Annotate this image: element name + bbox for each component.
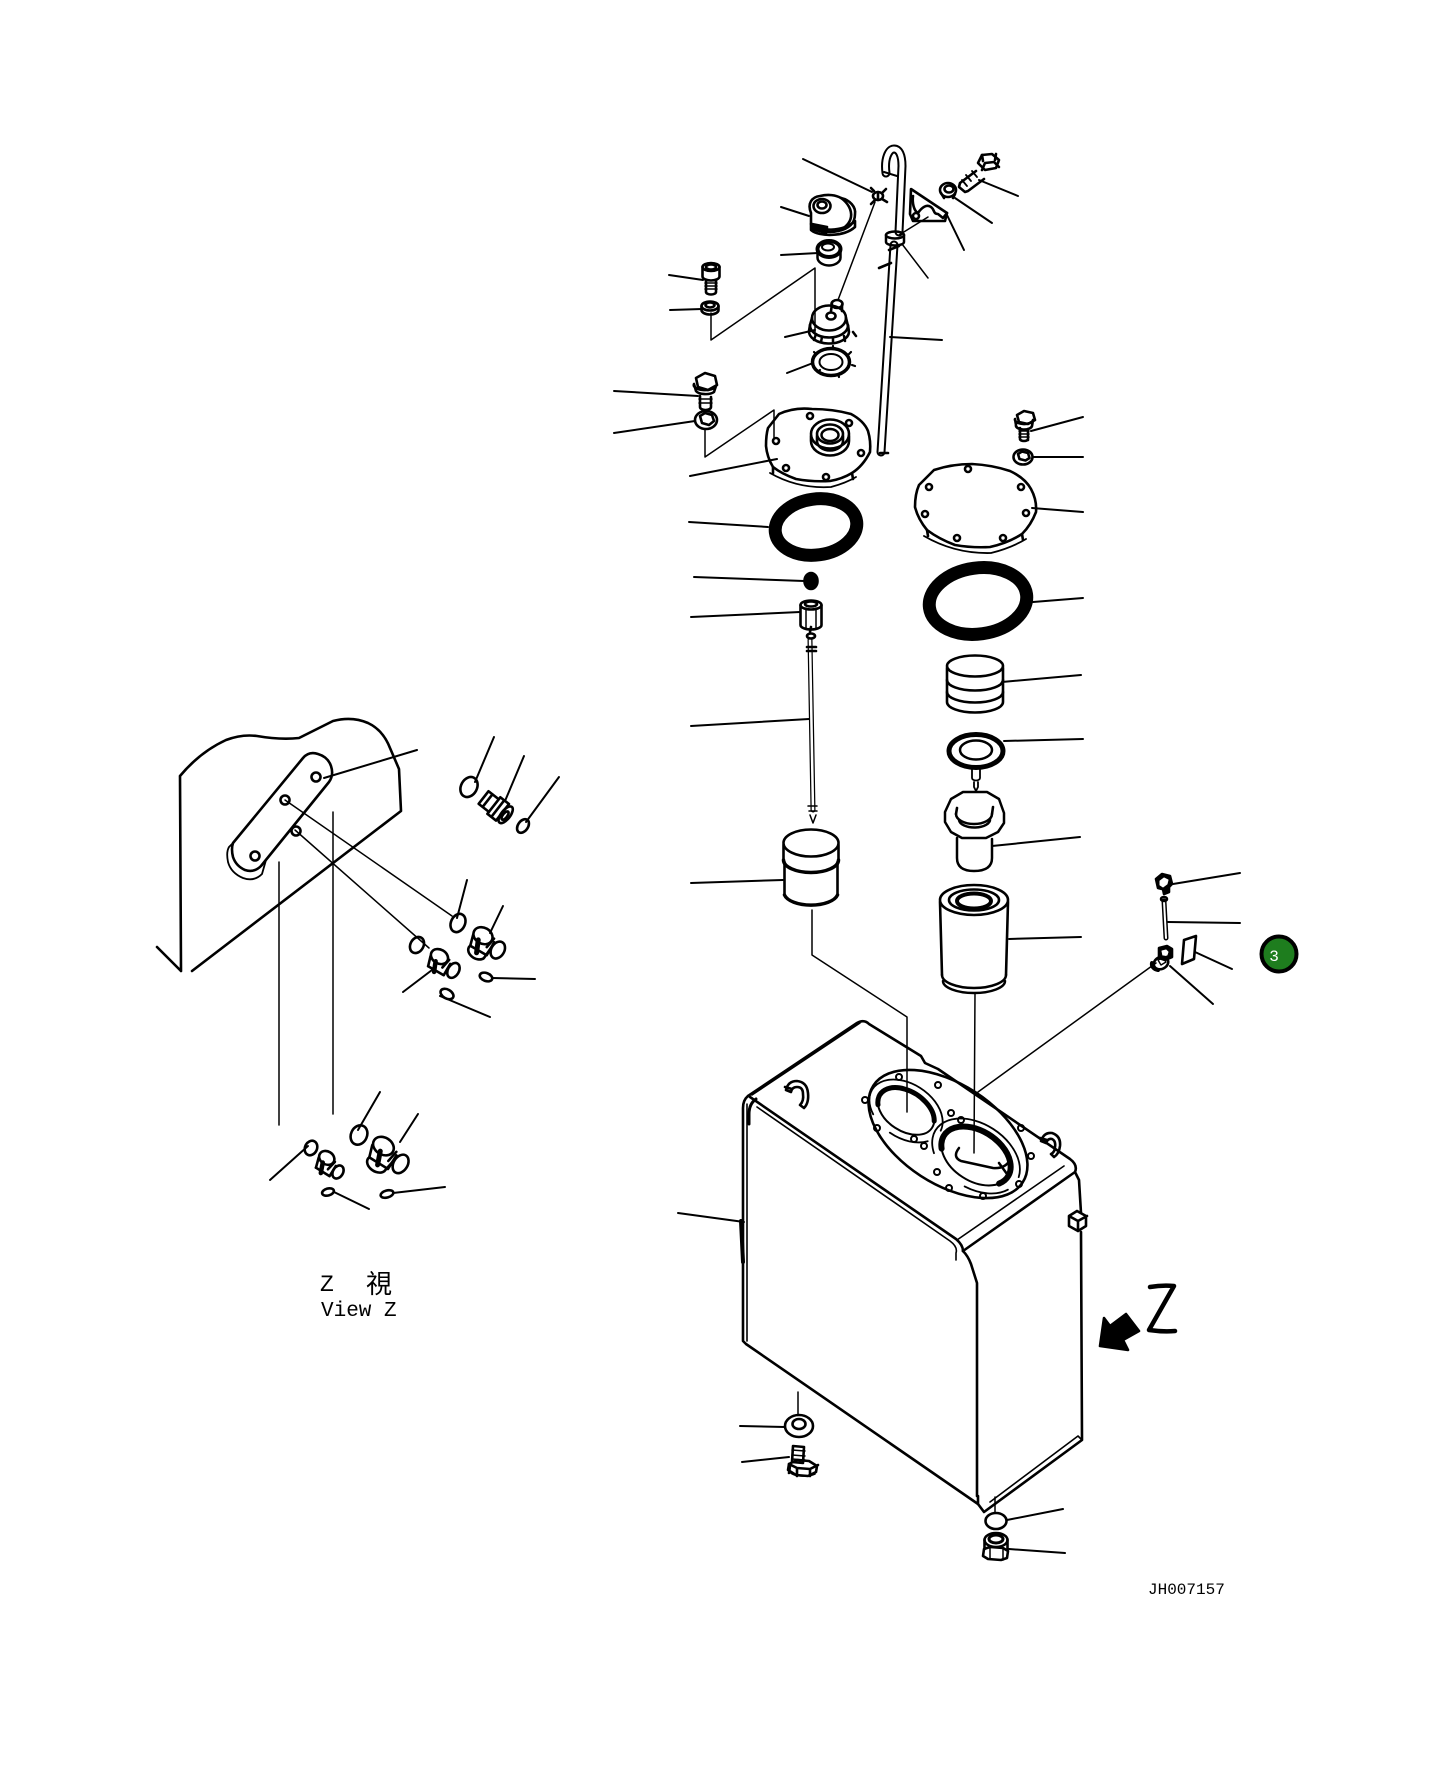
leader nut N1 [670, 309, 702, 310]
washer W3 [1014, 450, 1033, 465]
left opening [869, 1077, 943, 1144]
leader coupler [691, 612, 800, 617]
leader plug dot [694, 577, 804, 581]
left O-ring (thick) [772, 494, 861, 561]
dipstick tube [879, 149, 902, 453]
spring [947, 656, 1003, 713]
leader cap [781, 207, 809, 216]
small plate [1182, 936, 1196, 964]
fitting group 3 (bottom) [302, 1123, 414, 1200]
Z arrow [1100, 1314, 1139, 1350]
triangle bracket [910, 189, 947, 221]
bolt (tank bottom left) [788, 1446, 818, 1476]
leader washer BL [740, 1426, 785, 1427]
leader tank [678, 1213, 744, 1222]
leader sleeve [992, 837, 1080, 846]
leader washer W3 [1033, 456, 1083, 458]
handle right [1040, 1133, 1060, 1157]
svg-text:視: 視 [366, 1270, 392, 1301]
o-ring (tank bottom right) [986, 1513, 1007, 1529]
leader elbow to tank top [978, 963, 1156, 1092]
leader bushing [781, 253, 818, 255]
flange nut (bracket) [940, 183, 956, 198]
zigzag washer to cover [705, 410, 774, 457]
gasket ring [813, 346, 856, 377]
fit3 leaders [270, 1146, 308, 1180]
leader small filter [691, 880, 783, 883]
fitting group 2 (middle) [407, 911, 510, 1001]
fit1 leaders [475, 737, 494, 782]
leader bolt B2 [614, 391, 698, 396]
leader left O-ring [689, 522, 768, 527]
pickup swirl inside right opening [956, 1148, 1010, 1168]
right cover plate [915, 464, 1036, 553]
mounting plate [227, 753, 332, 879]
leader bolt B3 [1031, 417, 1083, 431]
leader rod [691, 719, 809, 726]
black plug dot [805, 573, 818, 589]
Z letter [1149, 1286, 1175, 1332]
clip (small) [871, 188, 887, 204]
svg-text:Z: Z [320, 1272, 334, 1298]
leader clamp [1173, 873, 1240, 884]
washer BL vertical [797, 1392, 799, 1414]
leader right filter [1009, 937, 1081, 939]
badge 3 [1262, 937, 1297, 972]
seat / valve [949, 735, 1003, 792]
drain plug (tank bottom right) [983, 1533, 1008, 1560]
leader gasket [787, 363, 813, 373]
leader bolt B1 [669, 275, 703, 280]
washer W2 [695, 411, 717, 429]
leader right O-ring [1033, 598, 1083, 602]
leader camlock [785, 330, 815, 337]
leader washer W2 [614, 421, 695, 433]
leader right cover [1032, 508, 1083, 512]
grommet on dipstick tube [886, 232, 904, 246]
leader elbow right down [1170, 966, 1213, 1004]
leader seat [1004, 739, 1083, 741]
texts [320, 1270, 1225, 1599]
svg-text:JH007157: JH007157 [1148, 1581, 1225, 1599]
oring BR vertical [994, 1497, 996, 1513]
wall panel [157, 719, 401, 971]
right O-ring (thick) [925, 562, 1031, 641]
bolt B3 (right) [1015, 411, 1035, 441]
left cover plate with filler neck [766, 409, 870, 488]
leader flange nut [955, 198, 992, 223]
leader grommet down-right [902, 244, 928, 278]
sleeve [945, 792, 1004, 871]
leader small plate [1195, 952, 1232, 969]
filler cap [810, 195, 856, 235]
right filter element [940, 885, 1008, 993]
svg-text:3: 3 [1269, 948, 1279, 966]
leader dipstick tube [890, 337, 942, 340]
clip to cam stem [838, 202, 875, 300]
leader plug BR [1009, 1549, 1065, 1553]
leader clip line [803, 159, 872, 192]
nut N1 [702, 302, 719, 315]
zigzag nut to camlock [711, 268, 815, 340]
hex coupler [801, 601, 822, 630]
leader grommet to bracket [899, 217, 928, 235]
leader from bracket right vertex [947, 215, 964, 250]
elbow fitting right [1152, 946, 1172, 972]
leader spring [1002, 675, 1081, 682]
fit2 leaders [457, 880, 467, 918]
leader right filter to tank opening [974, 993, 975, 1153]
bolt B1 (socket head) [703, 263, 720, 295]
leader left cover [690, 459, 777, 476]
view-z plate leaders [324, 750, 417, 778]
small filter [783, 830, 838, 906]
washer (tank bottom left) [785, 1415, 813, 1437]
bolt B2 (hex) [694, 373, 717, 410]
leader bolt BL [742, 1457, 789, 1462]
rod (level gauge) [807, 627, 817, 823]
leader bolt TR [979, 180, 1018, 196]
top oval flange [846, 1044, 1050, 1225]
cam lock assembly [809, 300, 856, 344]
clamp clip [1156, 874, 1172, 894]
fitting group 1 (top right of plate) [457, 774, 531, 835]
svg-text:View Z: View Z [321, 1300, 397, 1323]
pin [1161, 897, 1167, 938]
leader pin [1168, 922, 1240, 923]
handle front-left [785, 1081, 808, 1108]
leader small filter to tank [812, 910, 907, 1112]
bolt (bracket, top right) [959, 154, 999, 192]
drain boss cube on right face [1069, 1211, 1087, 1231]
leader oring BR [1007, 1509, 1063, 1520]
bushing [818, 241, 841, 266]
flange bolt holes [862, 1074, 1034, 1199]
right opening [931, 1114, 1022, 1197]
